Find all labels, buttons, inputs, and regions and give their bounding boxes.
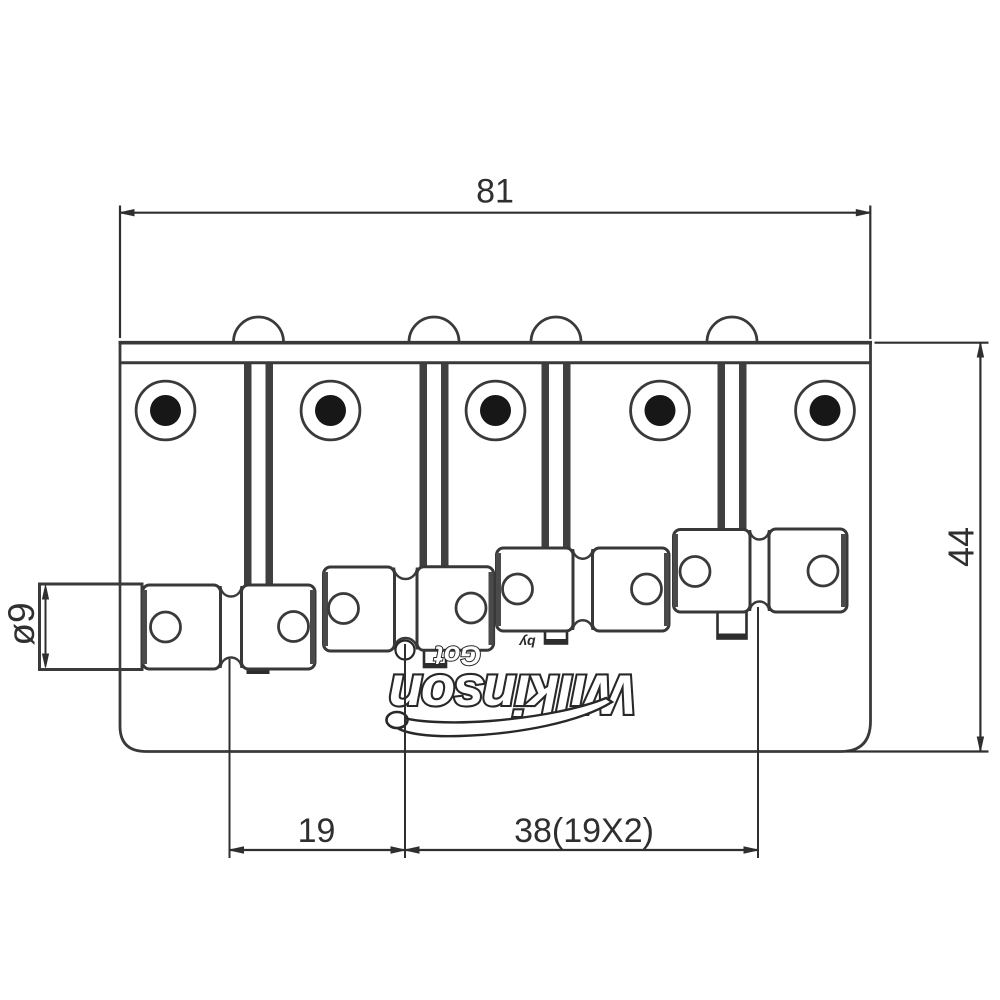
svg-text:81: 81 [476,173,514,211]
intonation screw 3 [542,364,571,550]
saddle 3 right boss [593,548,670,631]
top lip hump 4 [707,317,757,342]
Wilkinson logo (rotated 180) [391,664,637,727]
mounting hole 4 [631,381,690,440]
dim 81 extension line right [869,206,871,340]
svg-text:19: 19 [298,812,336,850]
dim 44 extension line bottom [846,750,989,752]
logo gotoh circle [396,641,415,660]
plate top edge [119,341,873,345]
saddle 3 waist [571,549,596,630]
mounting hole 1 [136,381,195,440]
dim 44 line [977,343,983,751]
svg-text:38(19X2): 38(19X2) [514,812,654,850]
intonation screw 4 [718,364,747,531]
saddle 2 left boss [324,567,395,651]
top lip hump 3 [531,317,581,342]
svg-text:Got: Got [434,641,481,671]
bridge plate body [120,343,871,752]
svg-text:Wilkinson: Wilkinson [391,664,637,727]
svg-text:ø9: ø9 [1,602,42,645]
saddle 3 left boss [497,548,574,631]
svg-text:by: by [518,635,536,651]
screw tip 4 [718,612,747,639]
top lip hump 2 [409,317,459,342]
dim 81 line [120,210,870,216]
saddle 1 waist [218,586,244,668]
dim 81 extension line left [119,206,121,339]
logo loop [387,712,408,728]
dim 44 extension line top [875,342,989,344]
saddle 2 waist [392,568,419,650]
svg-text:44: 44 [941,527,982,567]
mounting hole 3 [466,381,525,440]
intonation screw 2 [420,364,449,568]
saddle 4 right boss [769,529,847,612]
saddle 2 right boss [417,567,494,651]
saddle 1 right boss [242,585,316,669]
mounting hole 2 [301,381,360,440]
logo swoosh [396,698,612,736]
dim bottom line [230,847,759,853]
saddle 1 left boss [143,585,221,669]
barrel dia dimension arrows [43,586,49,668]
intonation screw 1 [244,364,273,587]
plate left edge over barrel [119,583,122,670]
dim 38 extension line mid [404,644,406,858]
dim 19 extension line [229,659,231,858]
screw tip 1 [247,668,270,675]
dim 38 extension line right [757,607,759,858]
plate lip second line [119,361,870,364]
saddle 4 waist [748,530,771,611]
screw tip 3 [545,631,567,644]
string barrel o9 [40,584,143,670]
screw tip 2 [424,650,446,668]
saddle 4 left boss [674,530,751,613]
top lip hump 1 [234,317,284,342]
mounting hole 5 [796,381,855,440]
